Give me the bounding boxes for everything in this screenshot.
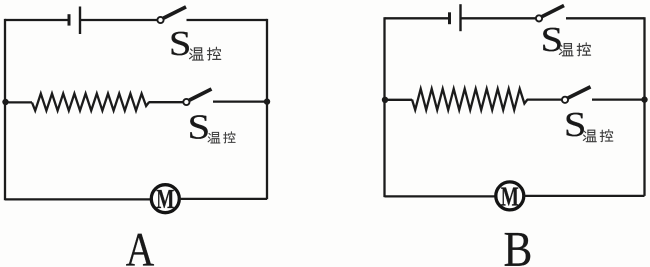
wire: A battery to top switch: [81, 19, 157, 21]
wire: B resistor to middle switch: [527, 98, 562, 100]
node: B right junction dot: [641, 96, 647, 102]
wire: B top-left segment: [385, 17, 449, 19]
svg-text:S: S: [564, 105, 587, 144]
node: A left junction dot: [2, 99, 8, 105]
svg-text:B: B: [504, 221, 533, 267]
label S温控 (middle, circuit B): subscript 温控: [583, 130, 613, 142]
wire: B left vertical: [383, 17, 385, 197]
switch S温控 (middle, circuit B): pivot circle: [562, 97, 568, 103]
wire: A bottom-left segment: [5, 198, 152, 200]
switch S温控 (top, circuit B): pivot circle: [536, 15, 542, 21]
wire: B top switch to top-right corner: [566, 17, 645, 19]
wire: A top switch to top-right corner: [187, 19, 268, 21]
wire: A top-left segment: [5, 19, 68, 21]
wire: B bottom-right segment: [524, 195, 645, 197]
svg-text:S: S: [169, 24, 192, 63]
battery (cell) circuit A: positive plate: [79, 7, 81, 35]
svg-text:A: A: [126, 223, 155, 267]
motor M (circuit B): ring: [496, 182, 524, 210]
wire: A middle-left segment: [5, 101, 32, 103]
switch S温控 (middle, circuit A): lever blade: [189, 89, 211, 100]
wire: A bottom-right segment: [179, 198, 267, 200]
wire: B bottom-left segment: [385, 195, 497, 197]
wire: A left vertical: [4, 19, 6, 200]
wire: A right vertical: [266, 19, 268, 199]
battery (cell) circuit B: negative plate: [448, 12, 451, 24]
switch S温控 (top, circuit A): lever blade: [163, 7, 186, 18]
switch S温控 (middle, circuit B): lever blade: [568, 87, 591, 98]
label S温控 (top, circuit B): subscript 温控: [559, 43, 590, 56]
svg-text:M: M: [156, 183, 174, 214]
resistor (heating element) circuit A: [32, 94, 149, 111]
label S温控 (top, circuit A): subscript 温控: [190, 47, 221, 60]
wire: A middle switch to right junction: [213, 100, 267, 102]
wire: B battery to top switch: [462, 17, 537, 19]
switch S温控 (middle, circuit A): pivot circle: [183, 99, 189, 105]
node: A right junction dot: [264, 98, 270, 104]
node: B left junction dot: [382, 97, 388, 103]
wire: B right vertical: [643, 17, 645, 196]
switch S温控 (top, circuit A): pivot circle: [157, 17, 163, 23]
switch S温控 (top, circuit B): lever blade: [542, 6, 564, 17]
motor M (circuit A): ring: [151, 185, 179, 213]
svg-text:M: M: [501, 180, 519, 211]
svg-text:S: S: [188, 108, 211, 147]
battery (cell) circuit B: positive plate: [459, 4, 461, 31]
resistor (heating element) circuit B: [412, 89, 528, 110]
battery (cell) circuit A: negative plate: [68, 14, 71, 25]
wire: A resistor to middle switch: [149, 101, 184, 103]
wire: B middle-left segment: [385, 99, 413, 101]
wire: B middle switch to right junction: [592, 98, 645, 100]
label S温控 (middle, circuit A): subscript 温控: [208, 132, 235, 143]
